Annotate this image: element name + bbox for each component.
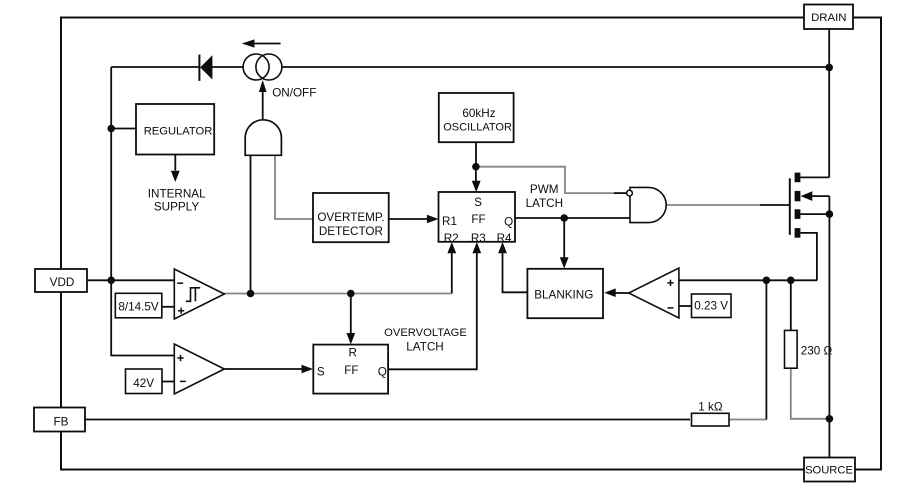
MOSFET Q1 source channel segment <box>795 228 801 238</box>
junction PWM latch Q node <box>560 214 568 222</box>
oscillator block U6 <box>439 93 514 142</box>
svg-text:Q: Q <box>504 216 513 229</box>
svg-text:REGULATOR: REGULATOR <box>144 125 213 137</box>
svg-text:60kHz: 60kHz <box>462 107 495 120</box>
svg-text:FF: FF <box>471 213 485 226</box>
reference box 0.23V <box>692 294 732 318</box>
wire current sense rail to U4 plus input <box>679 279 817 281</box>
arrowhead into PWM latch R4 input <box>498 242 507 253</box>
svg-text:OSCILLATOR: OSCILLATOR <box>443 121 512 133</box>
junction regulator tap <box>107 125 115 133</box>
pin plus of U1 <box>178 308 184 314</box>
svg-text:LATCH: LATCH <box>526 197 563 210</box>
pin plus of U4 <box>667 280 673 286</box>
wire 230 ohm resistor bottom to source node (gray) <box>791 368 830 419</box>
MOSFET Q1 body arrow <box>801 191 813 201</box>
wire VDD box to comparator U1 minus input <box>87 279 174 281</box>
current source direction arrowhead <box>242 39 255 47</box>
wire NAND U7 output to MOSFET gate (gray part) <box>666 204 760 206</box>
wire current source direction arrow shaft <box>254 43 281 45</box>
pin minus of U4 <box>668 307 674 309</box>
arrowhead into blanking top <box>560 257 569 268</box>
MOSFET Q1 body channel segment <box>795 191 801 201</box>
pin minus of U2 <box>180 380 186 382</box>
svg-text:BLANKING: BLANKING <box>534 289 593 302</box>
wire top rail right segment (current source to drain riser) <box>282 66 829 68</box>
arrowhead into blanking right (from U4) <box>604 288 616 297</box>
MOSFET Q1 gate bar <box>789 178 791 235</box>
wire U1 output rail (gray) <box>224 293 451 295</box>
arrowhead into PWM latch R1 input <box>427 215 439 224</box>
junction sense rail / FB riser <box>763 277 771 285</box>
wire 1k resistor to sense riser (gray) <box>729 419 766 421</box>
NAND gate U7 <box>630 187 666 222</box>
svg-text:VDD: VDD <box>50 276 75 289</box>
U1 hysteresis symbol <box>186 288 200 302</box>
arrowhead AND gate U8 to current source <box>259 80 267 92</box>
arrowhead into overvoltage latch S input <box>302 365 314 374</box>
wire FB rail <box>85 419 690 421</box>
wire AND gate U8 output to current source <box>262 92 264 120</box>
terminal SOURCE <box>804 458 855 482</box>
svg-text:SOURCE: SOURCE <box>805 465 853 477</box>
svg-text:FF: FF <box>344 364 358 377</box>
terminal FB <box>34 408 85 432</box>
wire riser to PWM latch R2 input <box>451 252 453 294</box>
junction sense rail / 230 ohm <box>787 277 795 285</box>
wire sense rail to 230 ohm resistor <box>790 280 792 330</box>
wire VDD node down to comparator U2 plus input <box>111 280 174 355</box>
svg-text:1 kΩ: 1 kΩ <box>698 400 723 413</box>
wire source riser down to SOURCE terminal <box>828 196 830 457</box>
wire MOSFET body to source riser <box>812 195 829 197</box>
wire NAND U7 inverted input stub (black) <box>614 192 627 194</box>
wire overtemp detector output to PWM latch R1 <box>389 218 428 220</box>
svg-text:LATCH: LATCH <box>406 341 443 354</box>
wire 42V reference to U2 minus input <box>162 381 174 383</box>
wire top rail left segment (VDD riser to diode D1) <box>111 66 199 68</box>
svg-text:OVERVOLTAGE: OVERVOLTAGE <box>384 327 467 339</box>
svg-text:230 Ω: 230 Ω <box>801 344 833 357</box>
diode D1 cathode bar <box>198 55 200 81</box>
wire current-limit comparator U4 output shaft <box>615 292 629 294</box>
wire overvoltage latch Q to PWM latch R3 input <box>388 252 477 369</box>
junction MOSFET third segment <box>826 210 834 218</box>
wire oscillator node to PWM latch S input <box>475 167 477 182</box>
pin minus of U1 <box>177 282 183 284</box>
wire oscillator node to NAND U7 inverted input (gray) <box>476 167 614 193</box>
junction U1 output / AND input <box>247 290 255 298</box>
svg-text:S: S <box>474 196 482 209</box>
resistor R2 1 kOhm <box>692 413 730 426</box>
wire MOSFET sense source down to sense rail <box>800 233 817 280</box>
svg-text:INTERNAL: INTERNAL <box>148 188 206 201</box>
comparator U1 (8/14.5V hysteresis) <box>174 269 224 319</box>
svg-text:R2: R2 <box>444 232 459 245</box>
wire blanking output to PWM latch R4 input <box>503 252 528 292</box>
overvoltage latch block U3 <box>313 345 388 394</box>
wire DRAIN riser <box>828 29 830 177</box>
wire VDD riser (top rail down to VDD node) <box>110 67 112 280</box>
resistor R1 230 Ohm <box>785 330 798 368</box>
svg-text:R: R <box>348 346 356 359</box>
svg-text:SUPPLY: SUPPLY <box>154 201 199 214</box>
junction source node bottom <box>826 415 834 423</box>
AND gate U8 (on/off control) <box>245 120 281 156</box>
arrowhead regulator to internal supply <box>171 171 180 182</box>
svg-text:R4: R4 <box>497 232 512 245</box>
NAND U7 input inverting bubble <box>627 190 633 196</box>
diode D1 <box>200 55 212 79</box>
wire regulator tap <box>111 128 136 130</box>
svg-text:42V: 42V <box>133 377 154 390</box>
wire PWM latch Q to NAND U7 lower input <box>515 217 630 219</box>
pin plus of U2 <box>177 355 183 361</box>
svg-text:S: S <box>317 366 325 379</box>
terminal DRAIN <box>804 5 853 30</box>
PWM latch block U5 <box>439 192 516 242</box>
wire sense riser to current sense rail <box>765 280 767 419</box>
wire Q node drop to blanking <box>563 218 565 258</box>
svg-text:R1: R1 <box>442 215 457 228</box>
wire MOSFET third segment to source riser <box>800 213 829 215</box>
arrowhead into overvoltage latch R input <box>346 333 355 344</box>
arrowhead into PWM latch R2 input <box>447 242 456 253</box>
wire AND gate U8 left input from U1 output rail <box>250 155 252 293</box>
svg-text:0.23 V: 0.23 V <box>694 300 728 313</box>
junction U1 output / OV latch R <box>347 290 355 298</box>
MOSFET Q1 third channel segment <box>795 209 801 219</box>
current source CS1 (dual circles) <box>243 54 282 80</box>
junction oscillator node <box>472 163 480 171</box>
comparator U4 (0.23V current limit) <box>629 268 679 318</box>
svg-text:8/14.5V: 8/14.5V <box>118 301 158 314</box>
regulator block <box>136 104 214 155</box>
wire drop to overvoltage latch R input <box>350 294 352 336</box>
arrowhead into PWM latch S input <box>472 181 481 193</box>
junction VDD node <box>107 277 115 285</box>
overtemp detector block U9 <box>313 193 389 242</box>
wire diode to current source <box>212 66 243 68</box>
wire MOSFET drain segment to riser <box>800 176 829 178</box>
wire regulator output arrow shaft <box>174 155 176 171</box>
wire NAND U7 output to MOSFET gate (black part) <box>760 204 789 206</box>
svg-text:R3: R3 <box>471 232 486 245</box>
svg-text:FB: FB <box>54 416 69 429</box>
wire oscillator drop <box>475 142 477 167</box>
wire 8/14.5V reference to U1 plus input <box>162 306 174 308</box>
blanking block <box>527 269 603 318</box>
wire 0.23V reference to U4 minus input <box>679 305 692 307</box>
comparator U2 (42V) <box>174 344 224 394</box>
reference box 42V <box>126 369 163 394</box>
svg-text:DRAIN: DRAIN <box>811 12 846 24</box>
svg-text:DETECTOR: DETECTOR <box>319 225 383 238</box>
terminal VDD <box>35 269 87 292</box>
reference box 8/14.5V <box>115 293 162 318</box>
junction drain rail <box>825 64 833 72</box>
svg-text:ON/OFF: ON/OFF <box>272 86 316 99</box>
svg-text:OVERTEMP.: OVERTEMP. <box>317 211 384 224</box>
wire AND gate U8 right input from overtemp detector (gray) <box>275 155 313 219</box>
MOSFET Q1 drain channel segment <box>795 173 801 183</box>
svg-text:PWM: PWM <box>530 183 559 196</box>
svg-text:Q: Q <box>378 366 387 379</box>
arrowhead into PWM latch R3 input <box>472 242 481 253</box>
wire U2 output to overvoltage latch S input <box>224 368 303 370</box>
